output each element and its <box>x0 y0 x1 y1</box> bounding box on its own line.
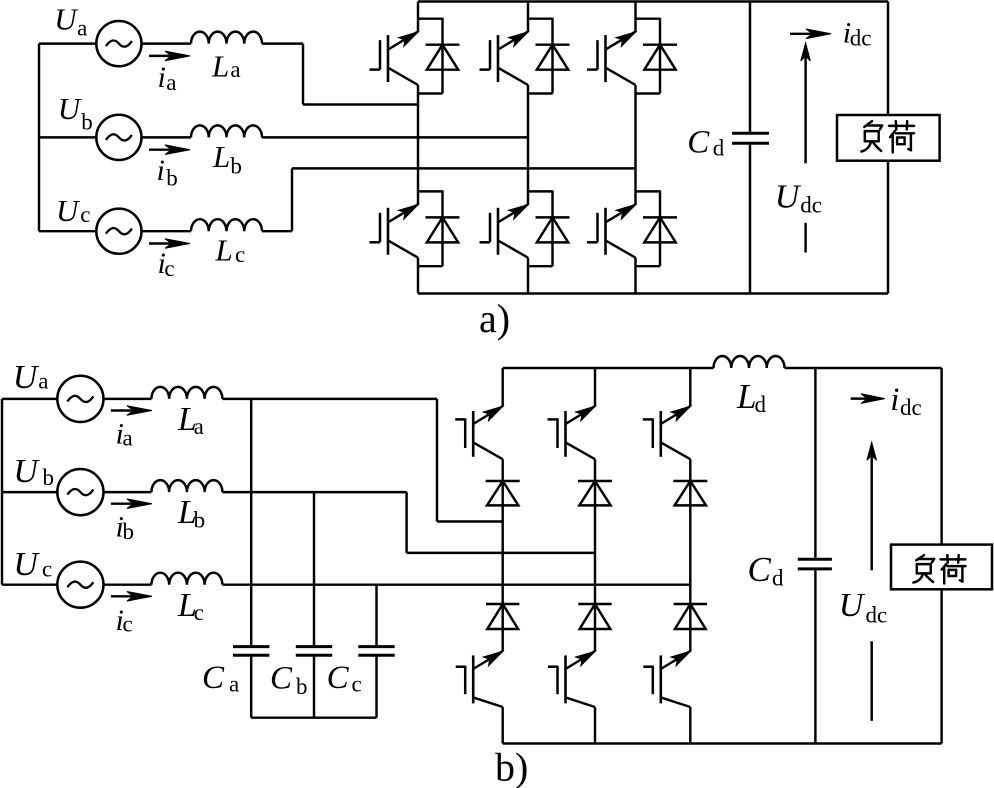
svg-text:C: C <box>202 660 225 696</box>
AC source Uc (a) <box>96 209 141 254</box>
IGBT V4 <box>387 208 390 255</box>
label Uc (a) <box>56 193 91 228</box>
wire Ua left (a) <box>39 42 96 44</box>
IGBT V1 emitter <box>473 442 503 459</box>
svg-text:b: b <box>43 465 55 490</box>
svg-text:U: U <box>839 587 866 624</box>
capacitor Cc (b) <box>358 647 394 656</box>
wire Uc to Lc (b) <box>104 583 152 585</box>
IGBT V4 collector <box>473 651 503 669</box>
IGBT V2 emitter <box>606 240 636 257</box>
wire Ua to La (a) <box>142 42 192 44</box>
IGBT V3 emitter <box>498 68 528 85</box>
svg-text:a: a <box>229 672 239 697</box>
svg-text:b: b <box>230 154 242 179</box>
svg-text:a): a) <box>479 296 510 341</box>
label Lb (b) <box>177 494 205 532</box>
inductor Ld (b) <box>714 356 785 368</box>
diode VD3 <box>578 480 612 482</box>
wire Uc to Lc (a) <box>142 230 192 232</box>
svg-text:C: C <box>687 125 710 161</box>
IGBT V5 collector <box>661 406 691 424</box>
wire capacitor Ca branch (b) <box>250 399 252 718</box>
svg-text:dc: dc <box>850 26 872 51</box>
IGBT V2 collector <box>606 204 636 222</box>
IGBT V4 gate <box>456 666 466 695</box>
svg-text:U: U <box>13 546 40 583</box>
label Lc (b) <box>177 587 204 625</box>
diode VD6 <box>578 603 611 605</box>
label idc (a) <box>843 16 872 50</box>
svg-text:dc: dc <box>800 192 822 217</box>
svg-text:b: b <box>123 519 135 544</box>
diode VD3 <box>528 18 570 94</box>
load box (b) <box>891 545 992 590</box>
wire bridge leg 1 (a) <box>417 2 419 294</box>
IGBT V5 <box>659 411 662 457</box>
label ib (a) <box>157 154 178 190</box>
wire DC- bottom rail (b) <box>503 742 942 744</box>
inductor Lb (b) <box>151 480 222 492</box>
wire phase a to bridge (a) <box>262 44 418 105</box>
svg-text:dc: dc <box>866 603 888 628</box>
wire DC+ top rail left segment (b) <box>503 367 714 369</box>
svg-text:dc: dc <box>900 395 922 420</box>
IGBT V2 <box>659 655 662 703</box>
IGBT V6 gate <box>480 213 491 243</box>
AC source Ua (b) <box>57 376 103 422</box>
IGBT V1 gate <box>370 40 381 70</box>
svg-text:c: c <box>352 672 362 697</box>
load text 负荷 <box>913 555 965 583</box>
svg-text:d: d <box>772 566 784 591</box>
wire left bus (b) <box>1 399 3 585</box>
load text 负荷 <box>861 121 914 152</box>
svg-text:a: a <box>38 369 48 394</box>
IGBT V2 gate <box>587 213 598 243</box>
inductor Lc (a) <box>191 219 262 231</box>
IGBT V4 gate <box>370 213 381 243</box>
wire DC- bottom rail (a) <box>418 292 888 294</box>
voltage reference dash Udc- (b) <box>870 641 872 721</box>
capacitor Cb (b) <box>296 647 332 656</box>
svg-text:c: c <box>80 202 90 227</box>
label Udc (a) <box>775 178 822 217</box>
IGBT V4 emitter <box>388 240 418 257</box>
IGBT V5 gate <box>643 418 653 448</box>
label Ca (b) <box>202 660 239 697</box>
IGBT V6 emitter <box>566 697 596 707</box>
svg-text:b): b) <box>495 745 528 788</box>
label Ld (b) <box>736 377 767 417</box>
IGBT V1 collector <box>388 32 418 50</box>
wire capacitor branch (a) <box>749 2 751 294</box>
svg-text:U: U <box>56 193 81 228</box>
IGBT V6 <box>497 208 500 255</box>
label Cc (b) <box>327 660 362 697</box>
IGBT V6 collector <box>566 651 596 669</box>
svg-text:c: c <box>42 557 52 582</box>
svg-text:c: c <box>164 256 174 281</box>
label Lb (a) <box>212 139 242 178</box>
IGBT V3 gate <box>480 40 491 70</box>
svg-text:L: L <box>211 48 229 83</box>
IGBT V2 <box>604 208 607 255</box>
AC source Ub (b) <box>57 469 103 515</box>
IGBT V4 collector <box>388 204 418 222</box>
wire phase c to bridge (b) <box>222 583 690 585</box>
label Lc (a) <box>215 232 246 267</box>
label Cd (b) <box>748 550 785 591</box>
diode VD5 <box>636 18 678 94</box>
IGBT V3 collector <box>566 406 596 424</box>
IGBT V1 emitter <box>388 68 418 85</box>
label Uc (b) <box>13 546 52 583</box>
current arrow ia (b) <box>111 406 152 416</box>
IGBT V5 <box>604 35 607 82</box>
IGBT V4 emitter <box>473 697 503 707</box>
diode VD2 <box>674 603 707 605</box>
svg-text:b: b <box>166 165 178 190</box>
wire Ub left (b) <box>2 491 57 493</box>
diode VD2 <box>636 190 678 266</box>
svg-text:U: U <box>13 453 40 490</box>
wire phase b to bridge (a) <box>262 136 528 138</box>
label La (a) <box>211 48 241 83</box>
wire capacitor Cd branch (b) <box>814 368 816 744</box>
label Ub (b) <box>13 453 54 490</box>
label idc (b) <box>890 382 921 420</box>
voltage reference dash Udc- (a) <box>804 223 806 253</box>
IGBT V3 collector <box>498 32 528 50</box>
IGBT V1 <box>387 35 390 82</box>
wire bridge leg 3 (b) <box>689 368 691 744</box>
diode VD4 <box>418 190 460 266</box>
AC source Ua (a) <box>96 21 141 66</box>
IGBT V5 emitter <box>606 68 636 85</box>
wire bridge leg 3 (a) <box>634 2 636 294</box>
IGBT V2 collector <box>661 651 691 669</box>
wire right branch (a) <box>887 2 889 294</box>
wire phase a to bridge (b) <box>222 399 502 522</box>
IGBT V6 <box>564 655 567 703</box>
capacitor Cd (a) <box>732 133 769 143</box>
wire bridge leg 2 (a) <box>527 2 529 294</box>
svg-text:i: i <box>157 154 165 187</box>
current arrow idc (b) <box>851 394 885 404</box>
IGBT V6 collector <box>498 204 528 222</box>
IGBT V1 gate <box>455 418 465 448</box>
IGBT V5 collector <box>606 32 636 50</box>
diode VD6 <box>528 190 570 266</box>
svg-text:a: a <box>123 425 133 450</box>
IGBT V3 <box>497 35 500 82</box>
svg-text:c: c <box>194 600 204 625</box>
IGBT V2 gate <box>643 666 653 695</box>
svg-text:U: U <box>775 178 802 215</box>
current arrow ib (a) <box>149 145 190 155</box>
svg-text:c: c <box>123 612 133 637</box>
svg-text:i: i <box>158 61 166 94</box>
diode VD4 <box>486 603 519 605</box>
IGBT V3 gate <box>548 418 558 448</box>
IGBT V1 <box>472 411 475 457</box>
load box (a) <box>837 115 940 161</box>
capacitor Cd (b) <box>798 559 832 569</box>
IGBT V3 emitter <box>566 442 596 459</box>
svg-text:C: C <box>748 550 772 589</box>
svg-text:U: U <box>54 2 79 37</box>
wire Ub to Lb (a) <box>142 136 192 138</box>
capacitor Ca (b) <box>233 647 269 656</box>
svg-text:i: i <box>890 382 899 418</box>
wire Uc left (b) <box>2 583 57 585</box>
wire capacitor Cc branch (b) <box>375 585 377 718</box>
svg-text:c: c <box>235 242 245 267</box>
label Cb (b) <box>270 661 308 700</box>
voltage arrow Udc (a) <box>801 43 811 163</box>
label ic (b) <box>116 604 133 637</box>
wire bridge leg 1 (b) <box>501 368 503 744</box>
svg-text:b: b <box>296 674 308 699</box>
wire Uc left (a) <box>39 230 96 232</box>
wire bridge leg 2 (b) <box>594 368 596 744</box>
voltage arrow Udc (b) <box>867 442 877 570</box>
IGBT V1 collector <box>473 406 503 424</box>
IGBT V6 emitter <box>498 240 528 257</box>
label ib (b) <box>116 511 135 544</box>
label Ub (a) <box>58 91 93 134</box>
IGBT V4 <box>472 655 475 703</box>
label La (b) <box>177 401 204 439</box>
inductor La (a) <box>191 32 262 44</box>
label Ua (b) <box>13 359 49 396</box>
current arrow ic (a) <box>149 239 190 249</box>
svg-text:U: U <box>13 359 40 396</box>
wire capacitor Cb branch (b) <box>313 492 315 718</box>
svg-text:L: L <box>736 377 756 416</box>
svg-text:L: L <box>212 139 230 174</box>
label Ua (a) <box>54 2 87 41</box>
wire Ub left (a) <box>39 136 96 138</box>
current arrow ib (b) <box>111 499 152 509</box>
current arrow ic (b) <box>111 592 152 602</box>
wire DC+ top rail right segment (b) <box>785 367 942 369</box>
svg-text:b: b <box>194 508 206 533</box>
svg-text:C: C <box>327 660 350 696</box>
wire Ua to La (b) <box>104 398 152 400</box>
IGBT V3 <box>564 411 567 457</box>
svg-text:C: C <box>270 661 293 697</box>
wire phase c to bridge (a) <box>262 168 636 231</box>
diode VD1 <box>486 480 520 482</box>
label ia (b) <box>116 418 133 451</box>
diode VD5 <box>673 480 707 482</box>
svg-text:d: d <box>713 135 725 160</box>
label ia (a) <box>158 61 177 95</box>
inductor Lc (b) <box>151 573 222 585</box>
current arrow ia (a) <box>149 51 190 61</box>
label Udc (b) <box>839 587 887 628</box>
diode VD1 <box>418 18 460 94</box>
wire capacitor bottom bus (b) <box>251 716 376 718</box>
wire right branch (b) <box>940 368 942 744</box>
svg-text:b: b <box>81 110 93 135</box>
IGBT V5 gate <box>587 40 598 70</box>
wire phase b to bridge (b) <box>222 492 595 553</box>
inductor La (b) <box>151 387 222 399</box>
svg-text:a: a <box>230 57 240 82</box>
svg-text:L: L <box>215 232 233 267</box>
IGBT V5 emitter <box>661 442 691 459</box>
wire left bus (a) <box>38 44 40 232</box>
svg-text:a: a <box>166 70 176 95</box>
label Cd (a) <box>687 125 725 161</box>
current arrow idc (a) <box>790 29 831 39</box>
svg-text:a: a <box>194 414 204 439</box>
AC source Uc (b) <box>57 562 103 608</box>
AC source Ub (a) <box>96 115 141 160</box>
svg-text:a: a <box>77 15 87 40</box>
IGBT V2 emitter <box>661 697 691 707</box>
wire Ub to Lb (b) <box>104 491 152 493</box>
wire DC+ top rail (a) <box>418 0 888 2</box>
inductor Lb (a) <box>191 125 262 137</box>
label ic (a) <box>158 247 175 281</box>
svg-text:d: d <box>755 392 767 417</box>
wire Ua left (b) <box>2 398 57 400</box>
svg-text:U: U <box>58 91 83 126</box>
IGBT V6 gate <box>548 666 558 695</box>
